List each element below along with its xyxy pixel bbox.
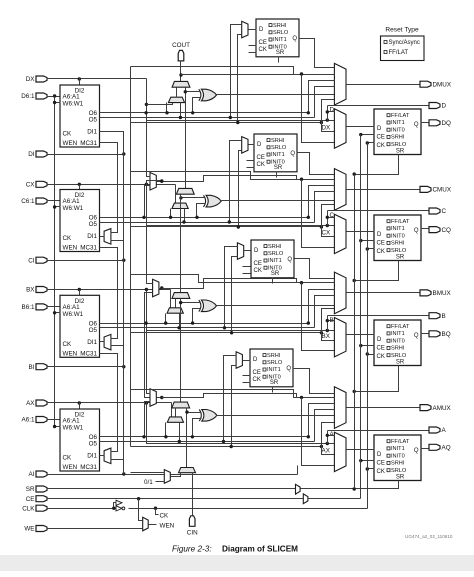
svg-text:MC31: MC31	[80, 464, 97, 471]
output pin C	[429, 208, 447, 215]
wire AFF2 CK stub	[243, 382, 251, 384]
svg-text:BMUX: BMUX	[433, 290, 452, 297]
svg-text:O5: O5	[89, 441, 98, 448]
flip-flop DFF2 (storage element 2)	[256, 19, 299, 57]
wire O6 to carry select A	[164, 423, 167, 439]
wire DFFMUX out to DFF D	[347, 126, 375, 128]
svg-text:O5: O5	[89, 327, 98, 334]
mux carry DI select D	[168, 97, 184, 102]
LUT B (A6:A1, W6:W1, DI2, O6, O5, DI1, MC31)	[60, 295, 100, 357]
mux F8MUX	[153, 279, 159, 297]
svg-text:CE: CE	[257, 155, 265, 161]
svg-text:CE: CE	[259, 40, 267, 46]
wire B node riser into FFMUX in1	[326, 319, 335, 331]
input pin AI	[29, 471, 47, 478]
wire A node riser into FFMUX in1	[326, 434, 335, 444]
svg-text:SR: SR	[274, 165, 283, 171]
svg-text:D: D	[330, 107, 335, 114]
wire CFF2 mux out to D	[249, 144, 255, 146]
svg-text:SRHI: SRHI	[273, 23, 287, 29]
svg-text:W6:W1: W6:W1	[63, 101, 84, 108]
flip-flop AFF (FF/LAT)	[374, 435, 421, 481]
svg-text:DI1: DI1	[87, 453, 97, 460]
svg-text:SRHI: SRHI	[268, 244, 282, 250]
input pin D6:1	[21, 93, 47, 100]
wire carry-out branch to DOUTMUX	[181, 74, 294, 76]
wire bypass line into BOUTMUX	[131, 275, 335, 285]
svg-text:DMUX: DMUX	[433, 81, 452, 88]
svg-text:CIN: CIN	[187, 530, 198, 537]
wire F7BMUX out to F8MUX	[147, 179, 164, 283]
svg-text:WEN: WEN	[63, 464, 78, 471]
svg-text:BX: BX	[26, 287, 35, 294]
mux CE invert	[303, 494, 308, 504]
input pin C6:1	[21, 198, 47, 205]
wire O5 of LUT A	[100, 441, 315, 443]
wire CFFMUX out to CFF D	[347, 231, 375, 233]
input pin CI	[28, 257, 47, 264]
wire BFF CE	[359, 344, 374, 347]
wire D node riser into FFMUX in1	[326, 110, 335, 120]
mux MUXCY carry B	[172, 293, 190, 299]
svg-text:SRLO: SRLO	[267, 360, 283, 366]
svg-text:MC31: MC31	[80, 350, 97, 357]
wire DI2 from CX	[79, 185, 81, 190]
LUT D (A6:A1, W6:W1, DI2, O6, O5, DI1, MC31)	[60, 85, 100, 147]
input pin SR	[26, 486, 47, 493]
svg-text:SRLO: SRLO	[273, 30, 289, 36]
wire DI2 from BX	[79, 290, 81, 296]
svg-text:CK: CK	[254, 268, 262, 274]
input pin CLK	[22, 505, 47, 512]
wire DQ output	[421, 122, 429, 124]
XOR gate XORCY D	[199, 89, 217, 101]
wire F7AMUX output	[157, 394, 297, 400]
svg-text:CE: CE	[377, 346, 385, 352]
wire DX branch to carry DI mux	[147, 103, 173, 105]
node BX label	[322, 333, 331, 340]
wire CFF CE	[359, 239, 374, 242]
wire long vertical bypass bus	[130, 67, 132, 447]
svg-text:CK: CK	[63, 341, 73, 348]
wire bypass line into COUTMUX	[131, 172, 335, 181]
wire O5 to BFF2 mux in1	[223, 247, 238, 330]
wire BFF2 CK stub	[243, 273, 251, 275]
svg-text:INIT1: INIT1	[391, 331, 405, 337]
node WEN label	[149, 522, 175, 529]
svg-text:WEN: WEN	[63, 140, 78, 147]
svg-text:SRHI: SRHI	[267, 353, 281, 359]
wire DI1 mux out to LUT B DI1	[100, 341, 105, 343]
svg-text:D: D	[257, 142, 262, 148]
wire BX branch to carry DI mux	[170, 290, 172, 314]
svg-text:CE: CE	[377, 241, 385, 247]
wire CLK rail	[47, 507, 368, 510]
wire CI to DI1 mux in2	[47, 241, 126, 262]
svg-text:AX: AX	[322, 448, 331, 455]
svg-text:C: C	[442, 208, 447, 215]
flip-flop BFF (FF/LAT)	[374, 320, 421, 366]
wire O6 into BOUTMUX	[307, 290, 335, 325]
node DX label	[322, 124, 332, 131]
wire XOR A output	[217, 415, 335, 417]
svg-text:D: D	[377, 126, 382, 132]
wire DFF2 CK stub	[249, 52, 257, 54]
input pin DX	[26, 76, 47, 83]
svg-text:Diagram of SLICEM: Diagram of SLICEM	[222, 545, 298, 554]
legend: Reset Type box	[381, 27, 425, 61]
svg-text:SRLO: SRLO	[391, 248, 407, 254]
wire A6:1 to A6:A1	[47, 419, 61, 421]
mux CYINIT	[179, 468, 196, 473]
wire C6:1 to A6:A1	[47, 200, 61, 202]
wire O5 to carry DI mux A	[178, 423, 181, 444]
input pin BX	[26, 287, 47, 294]
svg-text:CX: CX	[26, 182, 36, 189]
svg-text:CE: CE	[253, 370, 261, 376]
input pin B6:1	[22, 304, 47, 311]
wire MC31 shift chain from LUT C to DI1 mux B	[100, 248, 118, 339]
svg-text:0/1: 0/1	[144, 479, 153, 486]
wire CE rail	[47, 497, 361, 500]
svg-text:C: C	[330, 212, 335, 219]
svg-text:FF/LAT: FF/LAT	[389, 50, 409, 56]
flip-flop AFF2 (storage element 2)	[250, 349, 293, 387]
mux CYINIT select	[164, 470, 170, 484]
svg-text:CE: CE	[377, 461, 385, 467]
svg-text:CMUX: CMUX	[433, 187, 452, 194]
wire CFF2 CK stub	[247, 167, 255, 169]
input pin CX	[26, 181, 47, 188]
svg-text:DX: DX	[322, 124, 332, 131]
wire DI2 from AX	[79, 403, 81, 409]
wire B6:1 to A6:A1	[47, 306, 61, 308]
wire CX input net	[47, 183, 335, 228]
wire bypass line into AOUTMUX	[131, 390, 335, 400]
wire O6 to XOR D	[191, 98, 201, 115]
svg-text:UG474_a2_02_110610: UG474_a2_02_110610	[405, 534, 453, 539]
svg-text:FF/LAT: FF/LAT	[391, 219, 410, 225]
svg-text:SRLO: SRLO	[268, 251, 284, 257]
node AX label	[322, 448, 331, 455]
svg-text:INIT1: INIT1	[271, 152, 285, 158]
output pin BQ	[429, 331, 451, 338]
wire CX branch to carry DI mux	[175, 185, 177, 209]
output pin CQ	[429, 227, 451, 234]
svg-text:CK: CK	[377, 469, 385, 475]
svg-text:MC31: MC31	[80, 140, 97, 147]
svg-text:Reset Type: Reset Type	[385, 27, 419, 34]
wire DFF CK	[366, 141, 375, 144]
mux MUXCY carry D	[172, 81, 190, 87]
mux CFFMUX	[334, 214, 346, 253]
wire AFF2 mux out to D	[243, 360, 251, 362]
wire O6 into DOUTMUX	[307, 81, 335, 115]
wire SR rail	[47, 487, 399, 490]
svg-text:Q: Q	[286, 366, 291, 372]
svg-text:B: B	[442, 313, 446, 320]
wire bypass drop to CFFMUX in4	[302, 180, 335, 248]
svg-text:WEN: WEN	[63, 350, 78, 357]
wire CE riser	[360, 135, 362, 499]
wire AFF CK	[366, 467, 375, 470]
wire O5 to AFF2 mux in1	[222, 356, 237, 444]
mux BFFMUX	[334, 318, 346, 357]
svg-text:MC31: MC31	[80, 245, 97, 252]
svg-text:W6:W1: W6:W1	[63, 311, 84, 318]
wire O6 C to F7BMUX	[142, 186, 150, 220]
svg-text:CX: CX	[322, 230, 332, 237]
input pin DI	[28, 151, 47, 158]
output pin D	[429, 103, 447, 110]
wire DFF CE	[359, 133, 374, 136]
svg-text:D: D	[377, 232, 382, 238]
wire carry-in riser into B	[179, 299, 201, 403]
LUT C (A6:A1, W6:W1, DI2, O6, O5, DI1, MC31)	[60, 190, 100, 252]
wire XOR B output	[217, 305, 335, 307]
wire bypass drop to DFFMUX in4	[302, 75, 335, 143]
svg-text:CK: CK	[63, 131, 73, 138]
svg-text:Figure 2-3:: Figure 2-3:	[172, 545, 212, 554]
svg-text:CE: CE	[254, 261, 262, 267]
wire BFF2 mux out to D	[244, 250, 251, 252]
wire bypass to CYINIT mux	[131, 472, 165, 474]
wire bypass drop to AFFMUX in4	[302, 398, 335, 466]
svg-text:INIT1: INIT1	[268, 258, 282, 264]
svg-text:CK: CK	[259, 47, 267, 53]
wire CQ output	[421, 228, 429, 230]
XOR gate XORCY B	[199, 300, 217, 312]
svg-text:INIT0: INIT0	[391, 233, 405, 239]
svg-text:CI: CI	[28, 257, 35, 264]
mux MUXCY carry C	[176, 188, 194, 194]
XOR gate XORCY C	[204, 195, 222, 207]
svg-text:INIT0: INIT0	[391, 127, 405, 133]
mux MUXCY carry A	[172, 402, 190, 408]
wire O6 to carry select D	[165, 103, 168, 115]
wire O6 to carry select B	[164, 314, 167, 325]
wire O6 D to F7BMUX	[144, 111, 150, 176]
wire DI write-data riser	[123, 132, 125, 475]
wire AFF2 SR stub	[272, 387, 274, 393]
svg-text:D: D	[377, 452, 382, 458]
wire CFF2 Q to COUTMUX	[297, 153, 335, 175]
svg-text:A6:A1: A6:A1	[63, 94, 81, 101]
wire DI1 mux out to LUT C DI1	[100, 236, 105, 238]
wire AX branch to carry DI mux	[171, 403, 173, 423]
svg-text:A6:A1: A6:A1	[63, 198, 81, 205]
wire SR riser	[354, 175, 356, 489]
mux F7BMUX	[150, 173, 156, 191]
mux CFF2 input select	[242, 137, 248, 154]
svg-text:Sync/Async: Sync/Async	[389, 40, 420, 46]
svg-text:CK: CK	[377, 143, 385, 149]
wire carry-in riser into A	[185, 408, 201, 468]
mux DOUTMUX	[334, 63, 346, 105]
wire O5 of LUT D	[100, 117, 315, 119]
svg-text:INIT1: INIT1	[391, 446, 405, 452]
mux DI1 write-data select for LUT B	[104, 334, 111, 350]
svg-text:B6:1: B6:1	[22, 304, 35, 311]
wire MC31 line to DFF2 mux in2	[236, 35, 241, 125]
wire F7BMUX output	[157, 176, 297, 183]
wire O6 into AOUTMUX	[307, 404, 335, 439]
wire XOR D output	[217, 94, 335, 96]
wire MC31 shift chain from LUT B to DI1 mux A	[100, 354, 118, 452]
wire O6 into COUTMUX	[307, 186, 335, 220]
doc number	[405, 534, 453, 539]
svg-text:SRHI: SRHI	[271, 138, 285, 144]
mux carry DI select B	[167, 308, 183, 313]
wire BFF2 Q to BOUTMUX	[295, 259, 335, 279]
wire DFF SR	[353, 155, 399, 176]
svg-text:O5: O5	[89, 221, 98, 228]
wire bypass drop to BFFMUX in4	[302, 283, 335, 351]
svg-text:SRHI: SRHI	[391, 461, 405, 467]
svg-text:CK: CK	[377, 249, 385, 255]
wire BFF2 SR stub	[272, 278, 274, 284]
wire BFF CK	[366, 352, 375, 355]
svg-text:SR: SR	[270, 380, 279, 386]
wire BFFMUX out to BFF D	[347, 334, 375, 336]
svg-text:O5: O5	[89, 117, 98, 124]
wire O5 to carry DI mux B	[177, 314, 180, 330]
wire BI to DI1 mux in2	[47, 346, 126, 369]
buffer CLK polarity	[112, 500, 125, 511]
svg-text:WEN: WEN	[160, 522, 175, 529]
wire DMUX output	[347, 84, 421, 86]
flip-flop CFF2 (storage element 2)	[254, 134, 297, 172]
wire CFF2 SR stub	[276, 172, 278, 178]
wire carry DI mux out to MUXCY B	[175, 299, 177, 308]
svg-text:INIT0: INIT0	[391, 338, 405, 344]
wire CIN to CYINIT	[192, 473, 194, 516]
svg-text:D6:1: D6:1	[21, 93, 35, 100]
wire O6 to XOR B	[191, 309, 201, 325]
wire O5 into DOUTMUX	[315, 87, 335, 118]
wire COUT down to carry chain	[179, 61, 182, 82]
wire DFF2 SR stub	[278, 57, 280, 63]
svg-text:DI: DI	[28, 151, 35, 158]
svg-text:W6:W1: W6:W1	[63, 205, 84, 212]
svg-text:BI: BI	[29, 364, 35, 371]
wire DI2 from DX	[79, 79, 81, 85]
svg-text:D: D	[254, 248, 259, 254]
svg-text:AX: AX	[26, 400, 35, 407]
svg-text:BQ: BQ	[442, 331, 451, 338]
input pin COUT	[172, 42, 190, 61]
wire O5 into AOUTMUX	[315, 410, 335, 442]
mux WEN select	[143, 517, 149, 531]
wire D6:1 to A6:A1	[47, 94, 61, 97]
wire MC31 line to BFF2 mux in2	[230, 257, 238, 335]
svg-text:SRLO: SRLO	[271, 145, 287, 151]
svg-text:A6:1: A6:1	[22, 417, 35, 424]
wire O6 to XOR A	[191, 419, 202, 439]
svg-text:DI1: DI1	[87, 233, 97, 240]
wire F7AMUX out to F8MUX	[145, 293, 153, 398]
wire CLK riser	[367, 143, 369, 509]
wire DI to DI1 mux in2	[47, 152, 126, 155]
mux SR invert	[296, 484, 301, 494]
svg-text:Q: Q	[414, 333, 419, 339]
svg-text:CK: CK	[377, 354, 385, 360]
wire CFF2 CE stub	[247, 160, 255, 162]
XOR gate XORCY A	[199, 409, 217, 421]
output pin DQ	[429, 120, 451, 127]
wire AMUX output	[347, 407, 421, 409]
svg-text:SRHI: SRHI	[391, 346, 405, 352]
node CX label	[322, 230, 332, 237]
wire BMUX output	[347, 292, 421, 294]
svg-text:SR: SR	[396, 360, 405, 366]
mux DI1 write-data select for LUT C	[104, 229, 111, 245]
wire carry-in riser into C	[179, 195, 205, 293]
wire AFFMUX out to AFF D	[347, 449, 375, 451]
wire MC31 bypass line LUT C	[131, 205, 335, 237]
wire O6 B to F7AMUX	[144, 321, 150, 393]
input pin A6:1	[22, 417, 47, 424]
mux AFFMUX	[334, 432, 346, 471]
mux carry DI select C	[172, 203, 188, 208]
wire MC31 bypass line LUT A	[131, 423, 335, 455]
LUT A (A6:A1, W6:W1, DI2, O6, O5, DI1, MC31)	[60, 409, 100, 471]
svg-text:INIT1: INIT1	[267, 367, 281, 373]
svg-text:AI: AI	[29, 471, 35, 478]
svg-text:INIT0: INIT0	[391, 453, 405, 459]
wire DFF2 mux out to D	[249, 29, 257, 31]
svg-text:FF/LAT: FF/LAT	[391, 113, 410, 119]
wire O5 of LUT B	[100, 327, 315, 329]
wire O6 to carry select C	[169, 209, 172, 220]
wire CFF CK	[366, 247, 375, 250]
svg-text:SRLO: SRLO	[391, 142, 407, 148]
svg-text:FF/LAT: FF/LAT	[391, 439, 410, 445]
wire O5 of LUT C	[100, 222, 315, 224]
wire O6 of LUT C	[100, 217, 309, 219]
mux BFF2 input select	[237, 243, 243, 259]
svg-text:Q: Q	[414, 122, 419, 128]
caption	[172, 545, 298, 554]
wire DI to LUT D DI1	[100, 132, 124, 155]
svg-text:WEN: WEN	[63, 245, 78, 252]
wire W6:W1 write-address bus	[53, 97, 61, 429]
svg-text:SRLO: SRLO	[391, 353, 407, 359]
svg-text:AMUX: AMUX	[433, 405, 452, 412]
svg-text:Q: Q	[287, 257, 292, 263]
mux carry DI select A	[167, 417, 183, 422]
wire BFF2 CE stub	[243, 266, 251, 268]
svg-text:SRHI: SRHI	[391, 241, 405, 247]
wire BX input net	[47, 288, 335, 332]
wire O5 into BOUTMUX	[315, 296, 335, 328]
wire AFF2 CE stub	[243, 375, 251, 377]
svg-text:SRLO: SRLO	[391, 468, 407, 474]
output pin B	[429, 313, 446, 320]
svg-text:DQ: DQ	[442, 120, 452, 127]
node 0/1 constant	[144, 479, 153, 486]
svg-text:DI1: DI1	[87, 339, 97, 346]
output pin BMUX	[420, 290, 451, 297]
wire carry DI mux out to MUXCY D	[176, 88, 178, 98]
svg-text:D: D	[259, 27, 264, 33]
svg-text:Q: Q	[292, 36, 297, 42]
svg-text:CLK: CLK	[22, 505, 35, 512]
svg-text:CK: CK	[63, 455, 73, 462]
svg-text:SR: SR	[26, 486, 35, 493]
node CK tap	[156, 509, 170, 520]
svg-text:FF/LAT: FF/LAT	[391, 324, 410, 330]
